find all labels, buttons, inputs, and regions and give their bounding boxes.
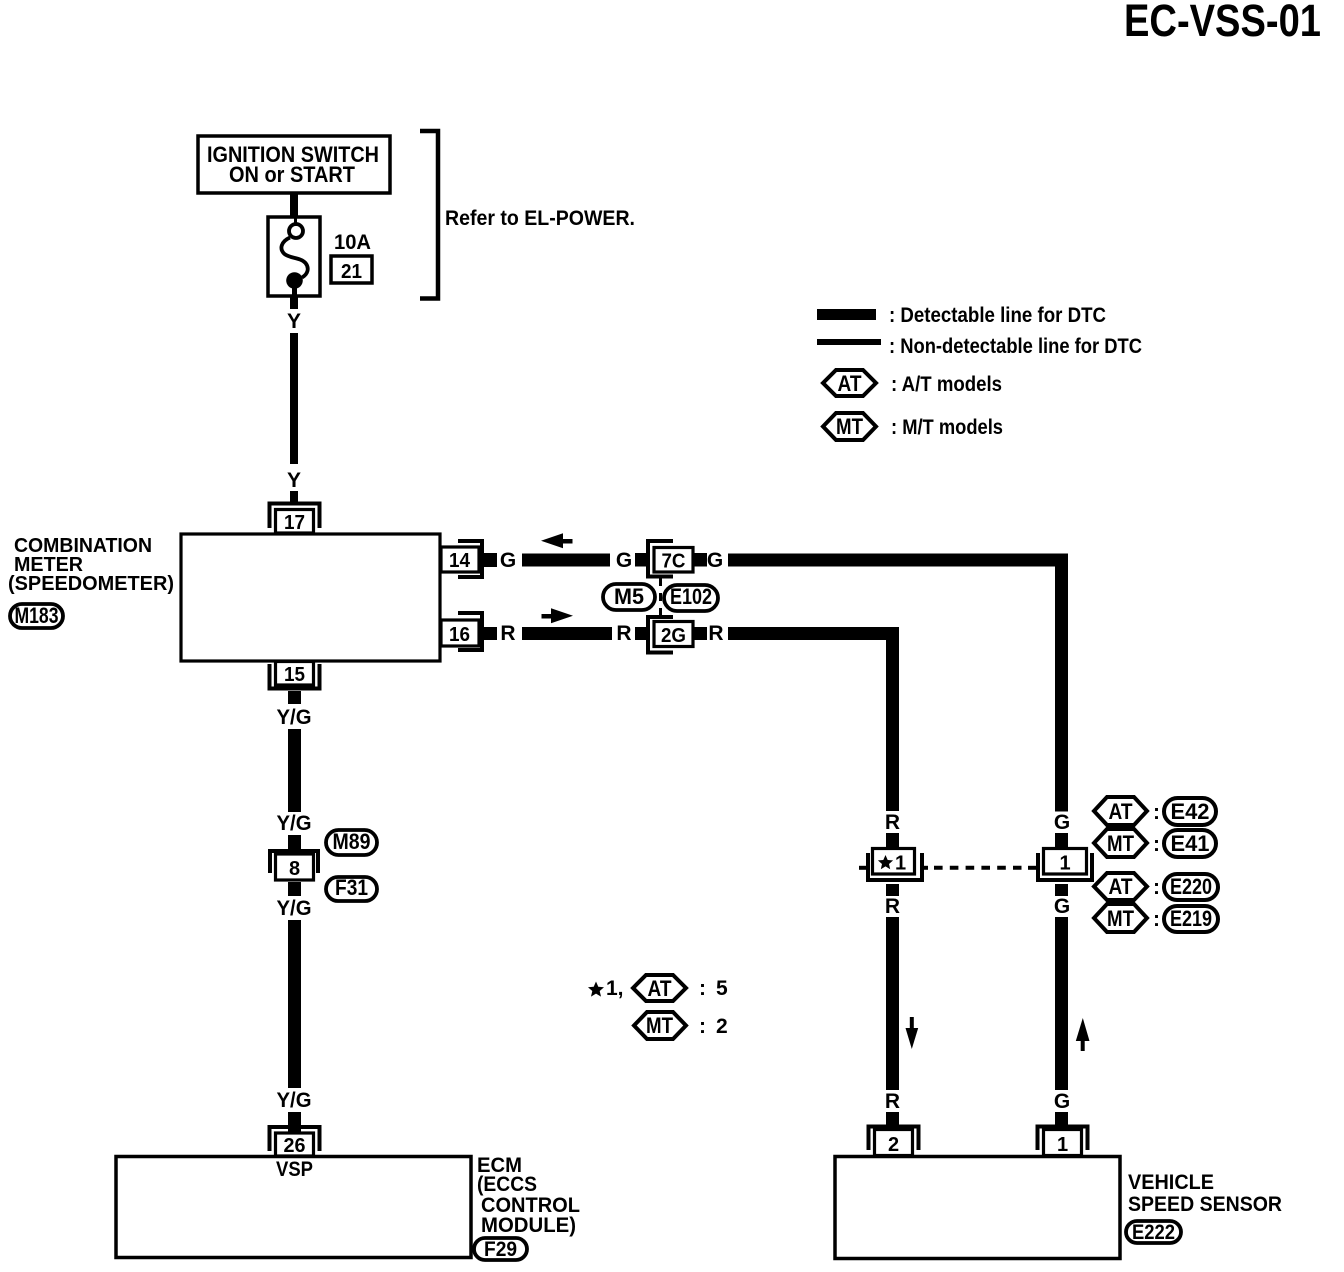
svg-text:Y/G: Y/G (277, 897, 312, 920)
connector id M5 (603, 584, 655, 610)
svg-text:R: R (885, 811, 900, 834)
wire R stub below (886, 884, 899, 896)
svg-text:1,: 1, (606, 977, 624, 1000)
svg-text:F29: F29 (484, 1238, 517, 1261)
svg-text:Y/G: Y/G (277, 706, 312, 729)
svg-text:R: R (885, 1090, 900, 1113)
label R (885, 1090, 900, 1113)
wire stub 14 (484, 553, 497, 567)
wire Y vertical (290, 333, 298, 464)
svg-text::: : (1153, 876, 1160, 899)
label ECM ECCS CONTROL MODULE (477, 1154, 580, 1237)
svg-text:G: G (616, 549, 632, 572)
svg-text:E102: E102 (670, 584, 712, 609)
svg-text:: Non-detectable line for DTC: : Non-detectable line for DTC (889, 335, 1142, 358)
wire G stub (1055, 833, 1068, 847)
label G (707, 549, 723, 572)
wire stub 2G left (635, 627, 646, 640)
svg-text:Y/G: Y/G (277, 1089, 312, 1112)
svg-text:(ECCS: (ECCS (477, 1173, 537, 1196)
wire R stub (886, 833, 899, 847)
arrow right (542, 608, 574, 623)
svg-text:F31: F31 (335, 875, 368, 900)
arrow up (1076, 1018, 1090, 1051)
wire G vertical down (1055, 554, 1068, 812)
wire stub 16 (484, 627, 497, 640)
connector 2G (648, 617, 693, 653)
svg-text::: : (1153, 801, 1160, 824)
svg-text:MT: MT (646, 1013, 673, 1038)
wire R horizontal thick (522, 627, 612, 640)
wire R to right (728, 627, 899, 640)
label Y/G (277, 812, 312, 835)
note MT 2 (634, 1012, 728, 1039)
ignition switch box (198, 136, 390, 193)
svg-text:E219: E219 (1170, 906, 1212, 931)
svg-text:R: R (500, 622, 515, 645)
dashed link between *1 and 1 (934, 866, 1022, 870)
svg-text:AT: AT (648, 976, 672, 1001)
wire stub 7C right (694, 553, 707, 567)
bracket refer to EL-POWER (420, 131, 635, 299)
svg-text:1: 1 (895, 853, 906, 875)
wire stub below 8 (288, 882, 301, 896)
connector 7C (648, 541, 693, 577)
svg-text:E220: E220 (1170, 874, 1212, 899)
wire ignition to fuse (290, 193, 298, 218)
wire G to right (728, 554, 1068, 567)
wire Y/G (288, 729, 301, 812)
svg-text:17: 17 (284, 512, 305, 534)
wire G horizontal thick (522, 554, 610, 567)
connector 16 (441, 613, 482, 650)
wire stub below 15 (288, 691, 301, 704)
svg-text:AT: AT (1109, 874, 1133, 899)
svg-text:R: R (708, 622, 723, 645)
svg-text:1: 1 (1059, 853, 1070, 875)
svg-text:G: G (500, 549, 516, 572)
wire Y stub (290, 491, 298, 505)
svg-text:VEHICLE: VEHICLE (1128, 1171, 1214, 1194)
legend MT models (823, 413, 1003, 440)
svg-text:Y: Y (287, 469, 301, 492)
AT E220 row (1094, 873, 1218, 900)
connector 17 (270, 504, 320, 535)
label R (708, 622, 723, 645)
label R (500, 622, 515, 645)
svg-text:G: G (1054, 811, 1070, 834)
label R (616, 622, 631, 645)
connector 8 (270, 851, 318, 880)
title EC-VSS-01 (1124, 0, 1321, 46)
svg-text:M89: M89 (333, 829, 371, 854)
connector id F29 (474, 1238, 527, 1261)
svg-text:Y/G: Y/G (277, 812, 312, 835)
wire R stub to pin 2 (886, 1112, 899, 1129)
svg-text::: : (1153, 833, 1160, 856)
label vehicle speed sensor (1128, 1171, 1282, 1216)
svg-text:15: 15 (284, 664, 305, 686)
wire fuse down (290, 296, 298, 309)
svg-text:2G: 2G (661, 625, 686, 647)
VSS box (835, 1157, 1120, 1259)
svg-text:G: G (1054, 895, 1070, 918)
svg-text:5: 5 (716, 977, 728, 1000)
svg-text::: : (1153, 908, 1160, 931)
connector id F31 (326, 875, 377, 901)
legend non-detectable line (817, 335, 1142, 358)
label Y (287, 310, 301, 333)
svg-text:MT: MT (836, 414, 863, 439)
label Y (287, 469, 301, 492)
connector id M183 (10, 603, 63, 628)
label combination meter (8, 534, 174, 595)
svg-text:AT: AT (1109, 799, 1133, 824)
MT E219 row (1094, 904, 1218, 932)
svg-text:26: 26 (284, 1135, 306, 1157)
svg-text:1: 1 (1057, 1134, 1068, 1156)
svg-text:R: R (885, 895, 900, 918)
svg-text:: Detectable line for DTC: : Detectable line for DTC (889, 304, 1106, 327)
svg-text:Refer to EL-POWER.: Refer to EL-POWER. (445, 206, 635, 230)
svg-text:M183: M183 (15, 603, 59, 628)
arrow left (541, 533, 573, 548)
connector *1 (859, 849, 928, 881)
svg-text:8: 8 (289, 858, 300, 880)
wire R vertical down (886, 627, 899, 811)
wire Y/G stub to 26 (288, 1112, 301, 1133)
wire G long down (1055, 917, 1068, 1090)
svg-text:VSP: VSP (276, 1158, 313, 1181)
combination meter box (181, 534, 440, 661)
svg-text:16: 16 (449, 624, 470, 646)
label G (1054, 1090, 1070, 1113)
svg-text:G: G (707, 549, 723, 572)
svg-text:: M/T models: : M/T models (891, 416, 1003, 439)
svg-text:MT: MT (1107, 831, 1134, 856)
svg-text:MODULE): MODULE) (481, 1214, 576, 1237)
label Y/G (277, 706, 312, 729)
dashed splice line vertical (659, 578, 662, 619)
svg-text:AT: AT (838, 371, 862, 396)
svg-text:2: 2 (888, 1134, 899, 1156)
svg-text::: : (699, 1015, 706, 1038)
connector id E222 (1126, 1221, 1181, 1244)
ECM box (116, 1157, 471, 1258)
connector 15 (270, 662, 320, 689)
note *1 AT 5 (588, 975, 728, 1001)
label G above connector 1 (1054, 811, 1070, 834)
svg-text:ON or START: ON or START (229, 162, 356, 187)
svg-text:SPEED SENSOR: SPEED SENSOR (1128, 1193, 1282, 1216)
label R (885, 895, 900, 918)
svg-text:EC-VSS-01: EC-VSS-01 (1124, 0, 1321, 46)
fuse 10A 21 (268, 217, 372, 296)
svg-text:: A/T models: : A/T models (891, 373, 1002, 396)
wire stub 2G right (694, 627, 707, 640)
wire R long down (886, 917, 899, 1090)
connector 26 (270, 1127, 320, 1157)
connector 1 inline (1028, 849, 1092, 881)
label R above star connector (885, 811, 900, 834)
legend detectable line (817, 304, 1106, 327)
wire Y/G long (288, 920, 301, 1088)
wire Y/G stub (288, 835, 301, 849)
svg-text:10A: 10A (334, 231, 371, 254)
label G (500, 549, 516, 572)
connector id M89 (326, 829, 377, 855)
label Y/G (277, 897, 312, 920)
connector 2 (869, 1127, 919, 1157)
connector 1 vss (1038, 1127, 1088, 1157)
label G (616, 549, 632, 572)
svg-text:(SPEEDOMETER): (SPEEDOMETER) (8, 572, 174, 595)
connector 14 (441, 541, 482, 577)
label Y/G (277, 1089, 312, 1112)
connector id E102 (664, 584, 718, 611)
MT E41 row (1094, 829, 1216, 857)
wire stub 7C left (635, 553, 646, 567)
svg-text:Y: Y (287, 310, 301, 333)
wire G stub below (1055, 884, 1068, 896)
svg-text::: : (699, 977, 706, 1000)
svg-text:E222: E222 (1132, 1221, 1175, 1244)
svg-text:R: R (616, 622, 631, 645)
wire G stub to pin 1 (1055, 1112, 1068, 1129)
legend AT models (823, 370, 1002, 396)
svg-text:E41: E41 (1171, 831, 1210, 856)
svg-text:2: 2 (716, 1015, 728, 1038)
svg-text:14: 14 (449, 550, 471, 572)
label VSP (276, 1158, 313, 1181)
svg-text:7C: 7C (662, 551, 686, 573)
svg-text:21: 21 (341, 261, 362, 283)
arrow down (906, 1017, 919, 1049)
svg-text:M5: M5 (614, 584, 644, 609)
AT E42 row (1094, 797, 1216, 825)
svg-text:E42: E42 (1171, 799, 1210, 824)
svg-text:G: G (1054, 1090, 1070, 1113)
label G (1054, 895, 1070, 918)
svg-text:MT: MT (1107, 906, 1134, 931)
